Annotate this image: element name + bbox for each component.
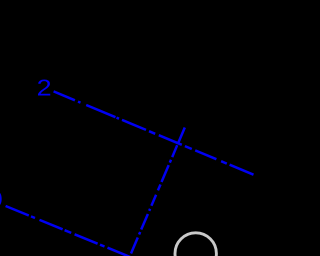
svg-text:2: 2 [37,75,52,101]
svg-text:0: 0 [0,187,3,213]
